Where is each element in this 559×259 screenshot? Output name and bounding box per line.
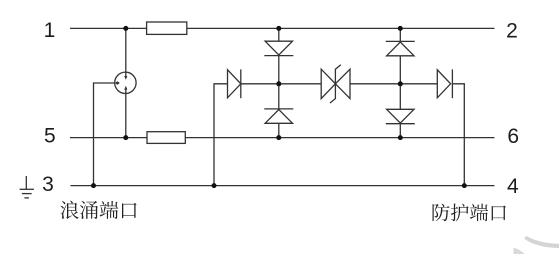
diode D1 (horizontal, pointing right) <box>228 70 241 98</box>
resistor R1 on line 1 <box>147 22 187 34</box>
resistor R2 on line 5 <box>147 132 185 144</box>
diode D5 (right branch top) (pointing up) <box>387 42 414 56</box>
watermark blob <box>514 248 525 254</box>
GDT side electrode diamond <box>115 81 120 85</box>
wire: line 5 (middle rail, terminal 5 to 6) <box>70 137 495 139</box>
diode D2 (horizontal, pointing right) <box>437 70 450 98</box>
wire: left steering branch from line3 up to middle row <box>214 84 228 186</box>
watermark arc (bottom-right, light gray) <box>524 236 559 248</box>
label: 浪涌端口 (surge port) <box>60 201 136 219</box>
junction node (400.3,137.6) <box>398 135 403 140</box>
svg-text:4: 4 <box>507 175 519 198</box>
wire: diode D2 bar right then down to line 3 <box>453 84 465 186</box>
TVS Z1 (bidirectional suppressor) <box>321 69 335 98</box>
junction node (214,185.6) <box>212 183 217 188</box>
svg-text:2: 2 <box>506 20 518 43</box>
junction node (464.3,185.6) <box>462 183 467 188</box>
GDT bottom electrode arrow <box>125 89 127 93</box>
wire: line 1 (top rail, terminal 1 to 2) <box>70 27 495 29</box>
junction node (278.8,28.4) <box>276 26 281 31</box>
diode D4 (left branch bottom) (pointing up) <box>265 110 292 124</box>
gas discharge tube G1 (3-electrode) circle <box>115 72 136 93</box>
junction node (93.5,185.6) <box>91 183 96 188</box>
svg-text:1: 1 <box>44 19 56 42</box>
junction node (125.8,28.4) <box>123 26 128 31</box>
junction node (278.8,83.8) <box>276 81 281 86</box>
GDT top electrode arrow <box>125 72 127 76</box>
wire: GDT center electrode vertical (line1 to line5) <box>125 28 127 137</box>
junction node (125.8,137.6) <box>123 135 128 140</box>
svg-text:3: 3 <box>42 173 54 196</box>
label: 防护端口 (protection port) <box>433 203 506 221</box>
wire: right diode branch vertical (line1-line5) <box>399 28 401 137</box>
wire: middle row, diode D1 bar to TVS <box>241 83 321 85</box>
wire: middle row, TVS to diode D2 <box>350 83 437 85</box>
wire: left diode branch vertical (line1-line5) <box>278 28 280 137</box>
diode D3 (left branch top) (pointing down) <box>265 41 292 55</box>
wire: GDT left electrode down to line 3 <box>94 83 115 186</box>
junction node (400.3,28.4) <box>398 26 403 31</box>
wire: line 3 (bottom rail, terminal 3 to 4) <box>71 185 495 187</box>
svg-text:5: 5 <box>44 125 56 148</box>
junction node (278.8,137.6) <box>276 135 281 140</box>
svg-text:6: 6 <box>507 125 519 148</box>
diode D6 (right branch bottom) (pointing down) <box>387 109 414 123</box>
ground symbol <box>20 176 34 198</box>
junction node (400.3,83.8) <box>398 81 403 86</box>
